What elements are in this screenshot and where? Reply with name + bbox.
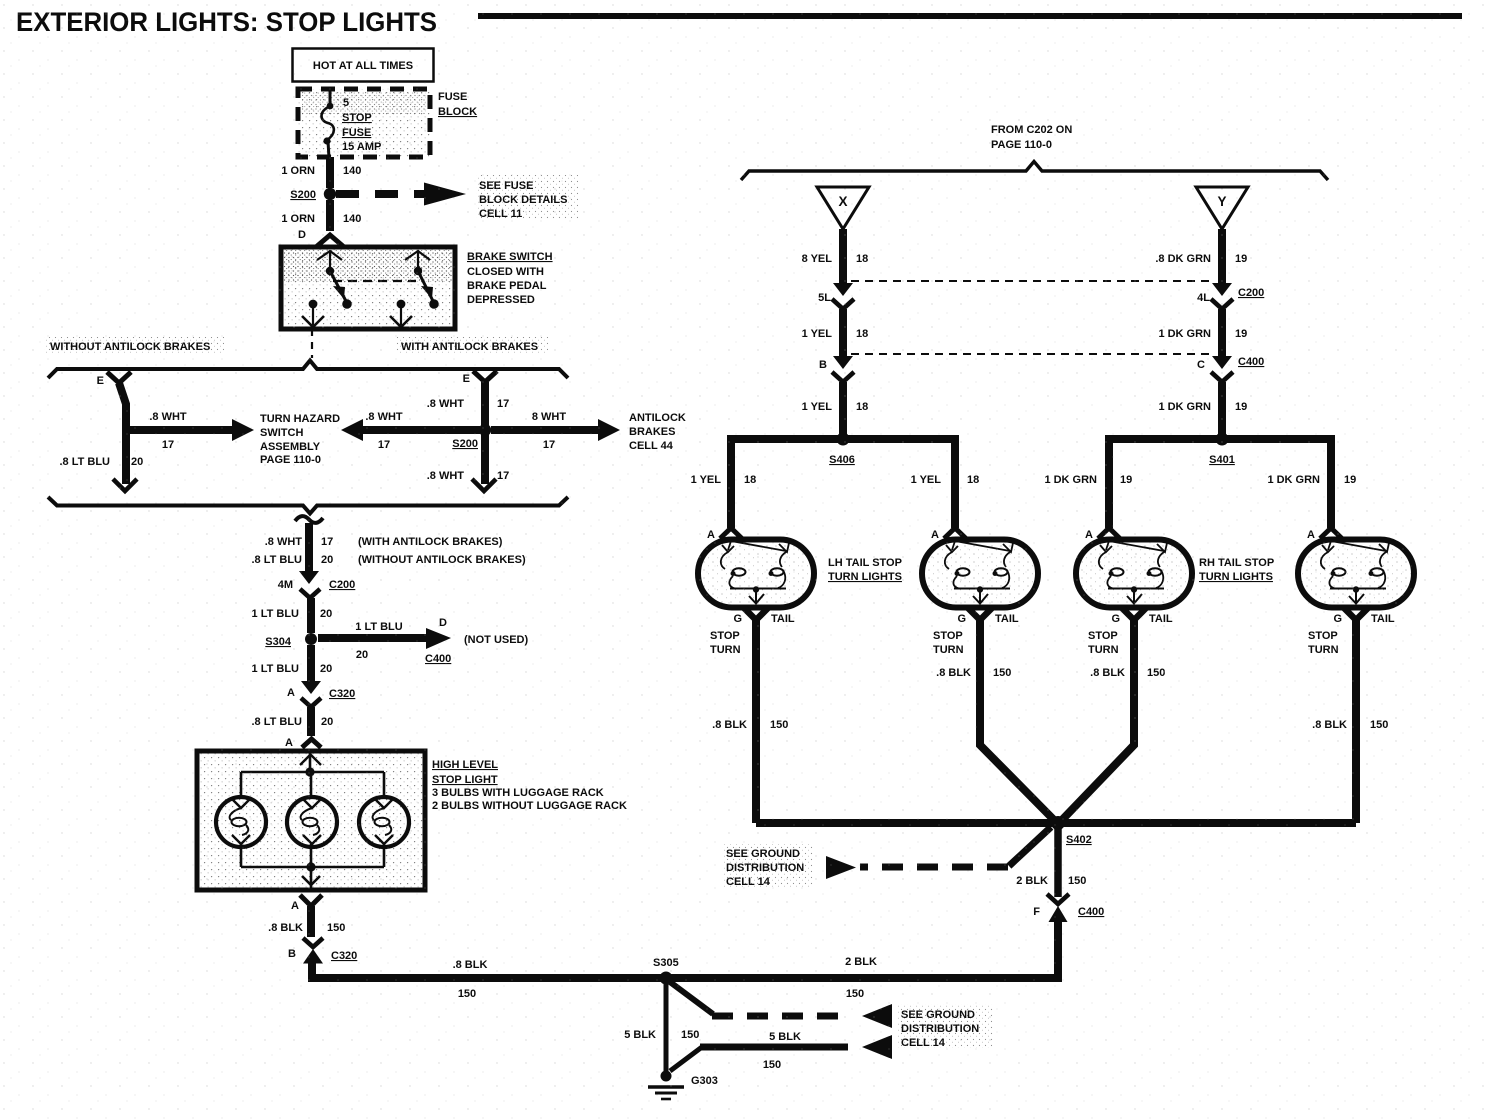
- node X (off-page): [817, 187, 869, 229]
- splice S305: [653, 957, 679, 985]
- wire .8 LT BLU 20: [59, 383, 143, 491]
- splice S402: [1051, 816, 1092, 846]
- dashed arrow SEE GROUND DISTRIBUTION CELL 14 (at S305): [670, 982, 892, 1028]
- wire fuse to S200, 1 ORN 140: [281, 157, 361, 188]
- label WITHOUT ANTILOCK BRAKES: [44, 337, 224, 353]
- RH outer tail/stop lamp: [1298, 540, 1414, 608]
- wire 1 DK GRN 19 to S401: [1158, 382, 1247, 437]
- wire .8 BLK 150 from LH inner lamp: [936, 618, 1055, 821]
- wire 1 YEL 18: [802, 309, 869, 356]
- fuse block (dashed box): [298, 89, 430, 157]
- bottom bus brace: [48, 497, 568, 514]
- connector C400 pin F with flow arrow: [1033, 894, 1104, 922]
- splice S304: [265, 633, 317, 648]
- exit wire of high level stop light: [302, 871, 320, 889]
- arrow from S200 branch to turn hazard switch, .8 WHT 17: [341, 411, 480, 451]
- bulb 2: [287, 776, 337, 867]
- label RH TAIL STOP TURN LIGHTS: [1199, 557, 1274, 583]
- arrow to turn hazard switch, .8 WHT 17: [130, 411, 254, 451]
- label SEE GROUND DISTRIBUTION CELL 14 (bottom): [898, 1004, 994, 1049]
- wire 5 BLK 150 to ground: [624, 984, 699, 1071]
- wire 1 YEL 18 to S406: [802, 382, 869, 437]
- splice S401 and bus: [1109, 433, 1331, 529]
- brake switch pole 1: [302, 250, 352, 327]
- high level stop light box: [197, 751, 627, 890]
- top bus brace: [48, 361, 568, 379]
- connector A at high level stop light: [285, 737, 321, 749]
- dashed wire below brake switch: [311, 329, 313, 358]
- wire break squiggle: [295, 516, 323, 523]
- pin E (left branch): [97, 372, 131, 387]
- wire .8 BLK 150: [268, 906, 345, 937]
- connector C400 pin C: [1197, 356, 1264, 382]
- label FUSE BLOCK: [438, 91, 477, 118]
- RH outer lamp pins G / TAIL: [1308, 608, 1395, 656]
- LH outer tail/stop lamp: [698, 540, 814, 608]
- connector C320 pin A: [287, 681, 355, 707]
- wire .8 BLK 150 from S305 to C320: [312, 959, 662, 1000]
- pin A of RH outer lamp: [1307, 528, 1342, 541]
- pin A of LH outer lamp: [707, 528, 742, 541]
- power label HOT AT ALL TIMES: [293, 49, 434, 82]
- branch arrow 1 LT BLU 20 to C400 D (NOT USED): [318, 617, 529, 665]
- wire to C200, .8 WHT 17 / .8 LT BLU 20: [251, 523, 525, 572]
- RH inner tail/stop lamp: [1076, 540, 1192, 608]
- wire .8 WHT 17 vertical with splice S200: [427, 382, 510, 491]
- dashed arrow SEE FUSE BLOCK DETAILS CELL 11: [336, 175, 578, 220]
- wire 1 YEL 18 to LH lamp A: [691, 474, 757, 486]
- wire 2 BLK 150 from S305 to C400: [662, 920, 1058, 1000]
- label FROM C202 ON PAGE 110-0: [991, 124, 1072, 151]
- LH inner tail/stop lamp: [922, 540, 1038, 608]
- pin E (S200 branch): [463, 371, 497, 385]
- splice S406 and bus: [731, 433, 955, 529]
- fuse STOP FUSE 15 AMP: [322, 91, 382, 158]
- wire 2 BLK 150 below S402: [1016, 828, 1086, 897]
- brake switch mechanical link (dashed): [333, 280, 416, 282]
- pin A of RH inner lamp: [1085, 528, 1120, 541]
- connector C400 pin B: [819, 356, 854, 382]
- wire 1 DK GRN 19: [1158, 309, 1247, 356]
- node Y (off-page): [1196, 187, 1248, 229]
- harness dashed link upper: [851, 280, 1213, 282]
- label LH TAIL STOP TURN LIGHTS: [828, 557, 902, 583]
- arrow to antilock brakes, 8 WHT 17: [491, 411, 620, 451]
- LH outer lamp pins G / TAIL: [710, 608, 795, 656]
- title EXTERIOR LIGHTS: STOP LIGHTS: [16, 7, 1462, 37]
- wire .8 LT BLU 20 to high level stop light: [251, 707, 333, 736]
- pin D male connector: [298, 229, 344, 247]
- wire .8 BLK 150 from RH outer lamp: [1312, 618, 1388, 823]
- wire 1 DK GRN 19 to RH lamp A: [1044, 474, 1132, 486]
- wire S200 to D, 1 ORN 140: [281, 200, 361, 231]
- pin A below box: [291, 895, 322, 912]
- brake switch pole 2: [390, 250, 439, 327]
- pin A of LH inner lamp: [931, 528, 966, 541]
- wire .8 DK GRN 19 from Y: [1155, 229, 1247, 284]
- harness dashed link lower: [851, 353, 1213, 355]
- wire .8 BLK 150 from LH outer lamp: [712, 618, 788, 823]
- connector C200 pin 4L: [1197, 283, 1264, 309]
- brace from C202: [741, 162, 1328, 181]
- wire 5 BLK 150 ground lead arrow: [670, 1031, 892, 1071]
- ground bus wire at S402: [756, 819, 1356, 827]
- wire 1 DK GRN 19 to RH outer lamp A: [1267, 474, 1356, 486]
- wire 8 YEL 18 from X: [802, 229, 869, 284]
- bulb 3: [359, 772, 409, 867]
- RH inner lamp pins G / TAIL: [1088, 608, 1173, 656]
- wire 1 LT BLU 20: [252, 598, 333, 633]
- high level stop light internal buses: [241, 752, 384, 872]
- wire .8 BLK 150 from RH inner lamp: [1061, 618, 1165, 821]
- ground G303: [648, 1071, 718, 1100]
- wire 1 LT BLU 20 to C320: [252, 645, 333, 681]
- connector C320 pin B with flow arrow: [288, 938, 357, 964]
- dashed arrow SEE GROUND DISTRIBUTION CELL 14 (at S402): [722, 827, 1051, 888]
- splice S200: [290, 188, 336, 201]
- connector C200 pin 5L: [818, 283, 854, 309]
- bulb 1: [216, 772, 266, 867]
- label WITH ANTILOCK BRAKES: [396, 337, 548, 353]
- connector C200 pin 4M: [278, 571, 356, 598]
- brake switch box: [281, 247, 553, 329]
- wire 1 YEL 18 to LH inner lamp A: [911, 474, 980, 486]
- LH inner lamp pins G / TAIL: [933, 608, 1019, 656]
- label ANTILOCK BRAKES CELL 44: [629, 412, 686, 452]
- label TURN HAZARD SWITCH ASSEMBLY PAGE 110-0: [260, 413, 340, 466]
